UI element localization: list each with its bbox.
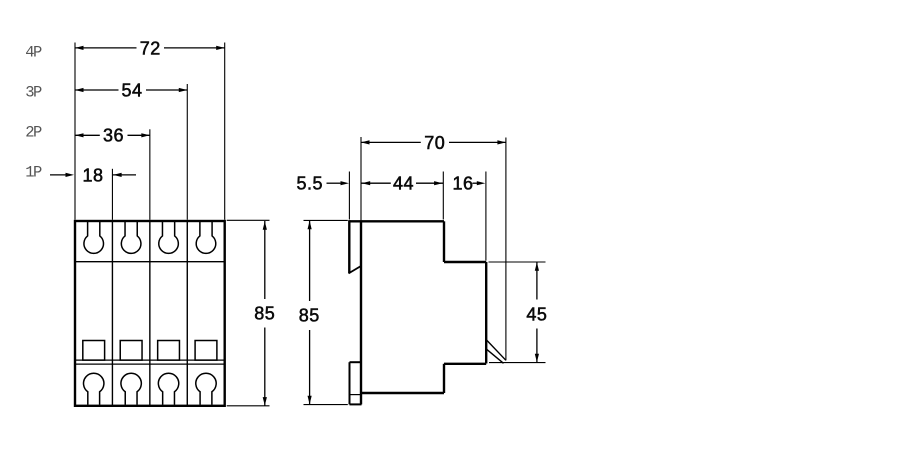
svg-text:85: 85 [299, 306, 320, 326]
svg-text:54: 54 [121, 80, 142, 100]
svg-text:4P: 4P [25, 43, 42, 61]
svg-text:85: 85 [254, 304, 275, 324]
svg-text:36: 36 [103, 126, 124, 146]
svg-text:2P: 2P [25, 124, 42, 142]
svg-text:45: 45 [526, 304, 547, 324]
svg-text:3P: 3P [25, 84, 42, 102]
svg-text:72: 72 [140, 38, 161, 58]
svg-text:16: 16 [452, 174, 473, 194]
svg-text:5.5: 5.5 [297, 174, 324, 194]
svg-text:18: 18 [82, 165, 103, 185]
svg-text:44: 44 [393, 174, 414, 194]
svg-text:1P: 1P [25, 163, 42, 181]
svg-text:70: 70 [424, 133, 445, 153]
